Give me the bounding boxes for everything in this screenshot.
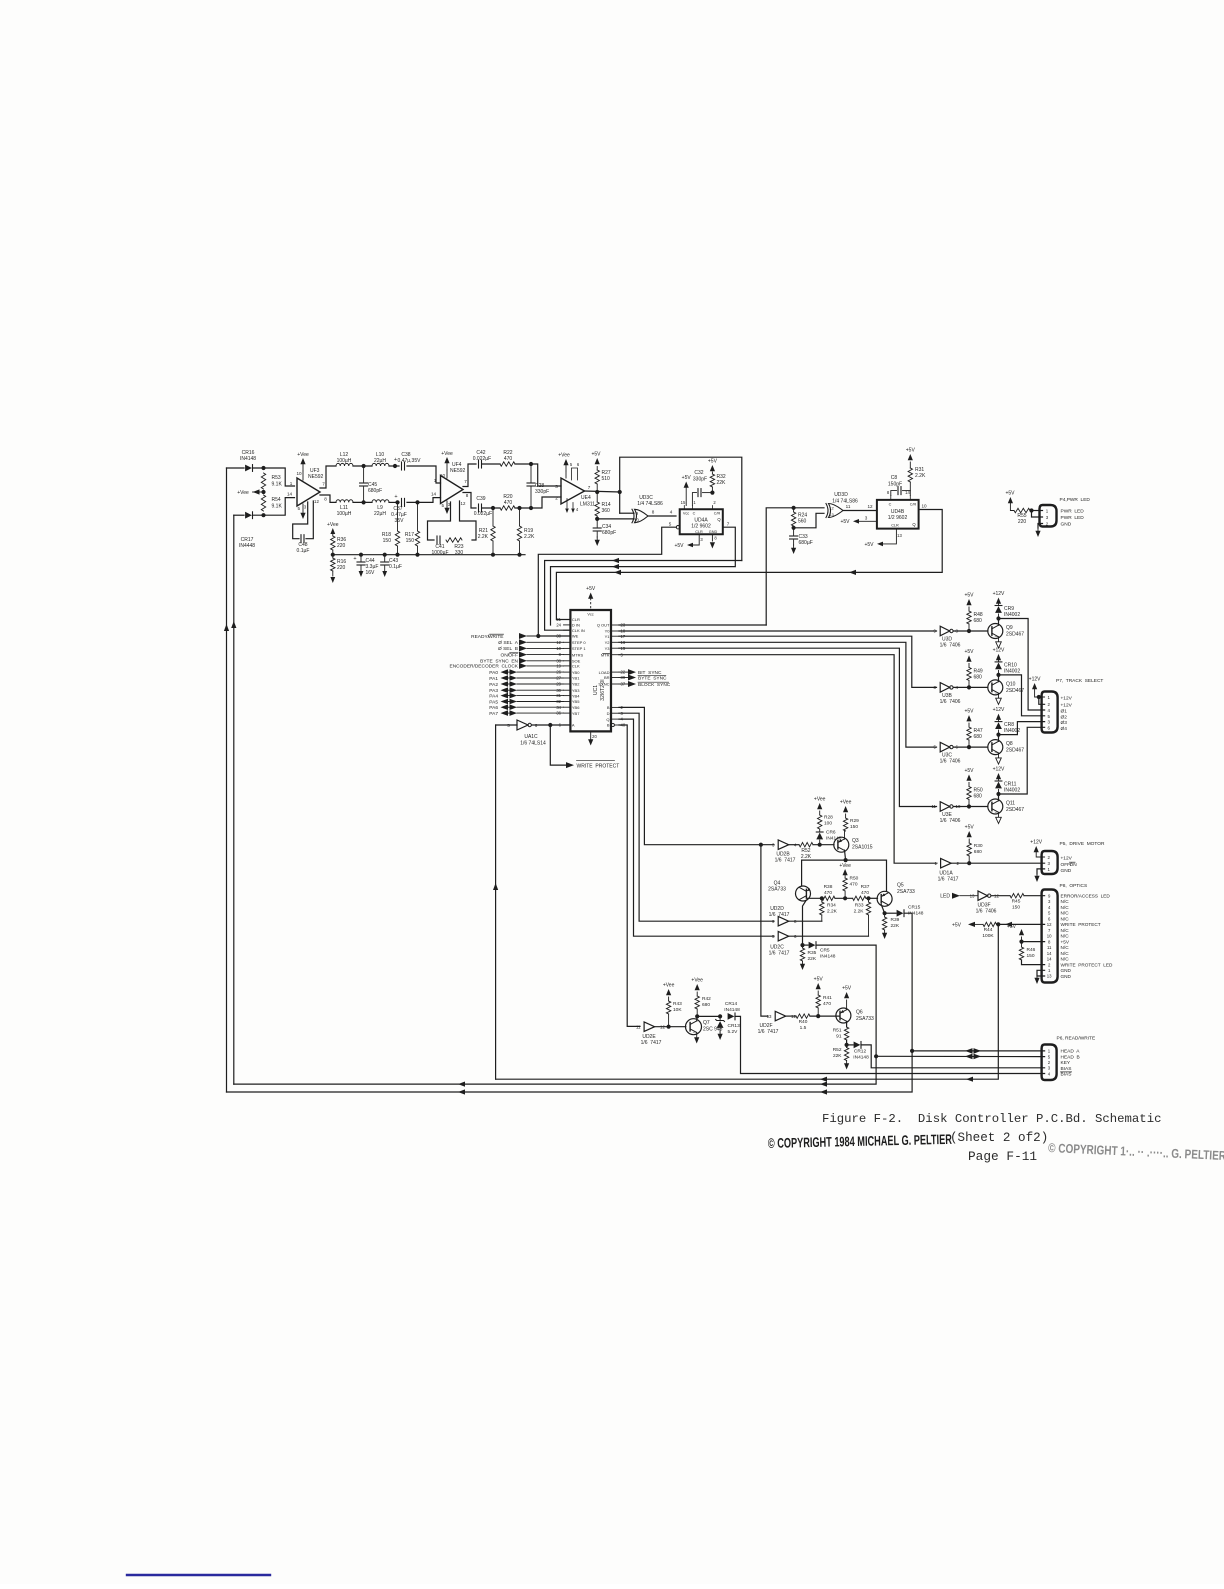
svg-text:100µH: 100µH bbox=[337, 458, 352, 464]
diode CR13 zener bbox=[716, 1016, 740, 1035]
svg-text:7: 7 bbox=[727, 522, 730, 527]
wire R45 to P8 pin9 bbox=[1024, 895, 1045, 897]
wire R20 to UE4 pin2 bbox=[515, 497, 561, 508]
svg-text:+Vee: +Vee bbox=[237, 490, 249, 496]
wire Y2 to U3C bbox=[619, 642, 937, 747]
wire Q7 collector up bbox=[696, 1016, 699, 1021]
resistor R16 bbox=[330, 555, 346, 583]
svg-text:C: C bbox=[889, 503, 892, 507]
svg-text:1: 1 bbox=[1048, 968, 1051, 973]
wire UD1A out to P5 bbox=[951, 862, 1045, 864]
arrow on bus C bbox=[612, 564, 619, 569]
svg-text:470: 470 bbox=[850, 882, 858, 888]
svg-text:P4,PWR LED: P4,PWR LED bbox=[1060, 497, 1091, 503]
svg-text:IN4148: IN4148 bbox=[853, 1055, 869, 1061]
connector P7 TRACK SELECT bbox=[1042, 692, 1058, 733]
svg-text:MTR: MTR bbox=[601, 652, 610, 657]
svg-text:1/6 74LS14: 1/6 74LS14 bbox=[520, 741, 546, 747]
svg-text:4: 4 bbox=[576, 507, 579, 512]
node R21 bottom junction bbox=[491, 553, 495, 557]
diode CR9 1N4002 bbox=[995, 604, 1020, 619]
wire U3B out to Q10 base bbox=[954, 686, 988, 688]
svg-text:N/C: N/C bbox=[1061, 905, 1070, 910]
resistor R48 680 bbox=[967, 607, 983, 631]
wire UD4A pin7 to bus C bbox=[551, 527, 736, 625]
inductor L12 bbox=[336, 452, 353, 466]
svg-text:470: 470 bbox=[824, 890, 832, 896]
svg-text:2.2K: 2.2K bbox=[801, 854, 812, 860]
node R50 bottom junction bbox=[843, 896, 847, 900]
node CR9 junction bbox=[996, 616, 1000, 620]
svg-text:GND: GND bbox=[1061, 522, 1072, 528]
svg-text:LED: LED bbox=[940, 894, 950, 900]
node R36/R16 junction bbox=[331, 553, 335, 557]
resistor R29 bbox=[843, 814, 859, 839]
wire Q4/Q5 top rail bbox=[802, 860, 887, 891]
connector P6 READ/WRITE bbox=[1042, 1045, 1057, 1081]
gate UD2E 7417 buffer bbox=[636, 1022, 666, 1046]
svg-text:© COPYRIGHT 1984 MICHAEL G. PE: © COPYRIGHT 1984 MICHAEL G. PELTIER bbox=[768, 1132, 952, 1151]
svg-text:YB6: YB6 bbox=[572, 705, 580, 710]
ground open arrow below Q10 bbox=[996, 693, 1002, 704]
svg-text:680pF: 680pF bbox=[368, 488, 382, 494]
wire L9 to C37 bbox=[389, 501, 399, 503]
wire UD3C out to UD4A pin4 bbox=[648, 515, 676, 517]
svg-text:N/C: N/C bbox=[1061, 928, 1070, 933]
power +5V above R51a bbox=[965, 825, 975, 838]
wire CR5 to HEADB vertical bbox=[234, 945, 876, 1084]
svg-text:4: 4 bbox=[1048, 1071, 1051, 1076]
power +Vee at UF4 pin10 bbox=[441, 451, 453, 478]
wire UD4A pin5 to bus A bbox=[538, 527, 676, 636]
transistor Q7 2SC945 bbox=[686, 1019, 723, 1035]
svg-text:R45: R45 bbox=[1012, 899, 1021, 905]
gate U3D 7406 inverter bbox=[934, 626, 961, 648]
svg-text:R35: R35 bbox=[808, 950, 817, 956]
wire UE4 loop to CLKIN bus B bbox=[545, 561, 742, 631]
ground below R35 bbox=[802, 961, 804, 964]
svg-text:R51: R51 bbox=[833, 1028, 842, 1034]
svg-text:R46: R46 bbox=[1027, 947, 1036, 953]
capacitor C45 bbox=[360, 466, 383, 502]
svg-text:12: 12 bbox=[461, 501, 466, 506]
svg-text:LOAD: LOAD bbox=[599, 670, 610, 675]
svg-text:+5V: +5V bbox=[840, 519, 850, 525]
wire L12 to L10 bbox=[353, 465, 372, 467]
resistor R52b 22K bbox=[833, 1045, 849, 1061]
arrow up on UA1C feedback bbox=[493, 883, 498, 890]
resistor R51a 680 bbox=[967, 839, 983, 863]
svg-text:Q: Q bbox=[606, 717, 609, 722]
svg-text:+5V: +5V bbox=[964, 649, 974, 655]
svg-text:2: 2 bbox=[713, 500, 716, 505]
svg-text:22K: 22K bbox=[808, 956, 817, 962]
labels P7 pins bbox=[1061, 696, 1073, 732]
connector P8 OPTICS bbox=[1042, 890, 1058, 983]
wire UD2E out to Q7 base bbox=[655, 1026, 686, 1028]
diode CR12 bbox=[853, 1042, 869, 1061]
svg-text:560: 560 bbox=[798, 519, 807, 525]
IC UC1 right pin stubs and names bbox=[597, 623, 626, 728]
diode CR17 bbox=[245, 512, 252, 519]
svg-text:3: 3 bbox=[700, 537, 703, 542]
svg-text:N/C: N/C bbox=[1061, 916, 1070, 921]
svg-text:CLR: CLR bbox=[891, 524, 899, 528]
svg-text:22K: 22K bbox=[833, 1053, 842, 1059]
gate UD1A 7417 buffer bbox=[934, 858, 959, 882]
wire P8 pin12 to R44 node bbox=[998, 923, 1044, 925]
wire bias rail bbox=[333, 554, 525, 556]
power +12V above CR10 bbox=[993, 647, 1005, 660]
node R34 top junction bbox=[820, 896, 824, 900]
svg-text:N/C: N/C bbox=[1061, 934, 1070, 939]
svg-text:+Vee: +Vee bbox=[839, 863, 851, 869]
resistor R24 bbox=[791, 508, 807, 528]
svg-text:BIAS: BIAS bbox=[1061, 1066, 1072, 1072]
svg-text:7: 7 bbox=[1048, 928, 1051, 933]
svg-text:5.2V: 5.2V bbox=[728, 1029, 739, 1035]
svg-text:12: 12 bbox=[867, 504, 873, 509]
svg-text:R38: R38 bbox=[824, 884, 833, 890]
svg-text:C39: C39 bbox=[476, 496, 485, 502]
svg-text:Figure F-2. Disk Controller P: Figure F-2. Disk Controller P.C.Bd. Sche… bbox=[822, 1112, 1161, 1126]
wire UD2B node to UD2F bbox=[761, 845, 768, 1016]
pin 13 CLR of UD4B bbox=[864, 529, 902, 548]
power +5V to UC1 Vcc bbox=[586, 586, 596, 610]
node R50 junction bbox=[967, 804, 971, 808]
svg-text:+5V: +5V bbox=[814, 977, 824, 983]
svg-text:0.1µF: 0.1µF bbox=[297, 548, 310, 554]
svg-text:150: 150 bbox=[850, 824, 858, 830]
wire into XOR UD3C pin9 bbox=[620, 512, 634, 514]
pin 5 of UD4A bbox=[669, 522, 680, 529]
svg-text:R42: R42 bbox=[702, 996, 711, 1002]
svg-text:+5V: +5V bbox=[952, 923, 962, 929]
arrows on HEAD B row bbox=[965, 1054, 981, 1060]
pin 3 CLR of UD4A bbox=[674, 534, 703, 549]
svg-text:7: 7 bbox=[322, 482, 325, 487]
svg-text:GND: GND bbox=[1061, 968, 1072, 973]
svg-text:1.5: 1.5 bbox=[800, 1025, 807, 1031]
ground at P5 pin1 bbox=[1036, 874, 1038, 876]
diode CR10 1N4002 bbox=[995, 660, 1020, 675]
wire UF3 pin8 to bottom rail bbox=[320, 495, 336, 502]
resistor R40 bbox=[796, 1014, 810, 1031]
transistor Q10 2SD467 bbox=[988, 680, 1024, 695]
resistor R14 bbox=[595, 492, 611, 519]
wire Q10 collector bbox=[998, 675, 1000, 682]
svg-text:STEP 0: STEP 0 bbox=[572, 640, 586, 645]
power +5V above R32 bbox=[708, 459, 718, 472]
transistor Q8 2SD467 bbox=[988, 740, 1024, 755]
arrow on bus D far bbox=[849, 570, 856, 575]
power +5V above R49 bbox=[964, 649, 974, 662]
svg-text:11: 11 bbox=[636, 1025, 641, 1030]
svg-text:+5V: +5V bbox=[965, 825, 975, 831]
svg-text:91: 91 bbox=[836, 1034, 842, 1040]
svg-text:+12V: +12V bbox=[1061, 856, 1073, 862]
svg-text:N/C: N/C bbox=[1061, 945, 1070, 950]
svg-text:+Vee: +Vee bbox=[814, 797, 826, 803]
node UE4 loop junction bbox=[618, 490, 622, 494]
svg-text:+5V: +5V bbox=[906, 448, 916, 454]
svg-text:11: 11 bbox=[846, 504, 851, 509]
power +5V above R48 bbox=[964, 593, 974, 606]
caption page bbox=[968, 1149, 1037, 1164]
power +5V above R27 bbox=[591, 452, 601, 465]
svg-text:CLK: CLK bbox=[572, 664, 580, 669]
svg-text:4: 4 bbox=[1047, 708, 1050, 713]
svg-text:Ø SEL A: Ø SEL A bbox=[498, 640, 519, 646]
wire UE4 loop riser bbox=[620, 457, 742, 560]
svg-text:3: 3 bbox=[1048, 1066, 1051, 1071]
wire loop to UF4 pin12 bbox=[460, 501, 477, 540]
svg-text:+5V: +5V bbox=[1007, 924, 1017, 930]
node divider mid junction bbox=[261, 490, 265, 494]
svg-text:1/6 7406: 1/6 7406 bbox=[940, 699, 961, 705]
svg-text:1: 1 bbox=[1047, 695, 1050, 700]
power +5V at UD4A Vcc bbox=[682, 475, 692, 506]
svg-text:+Vee: +Vee bbox=[297, 452, 309, 458]
resistor R36 with +Vee bbox=[327, 522, 346, 555]
svg-text:Q11: Q11 bbox=[1006, 801, 1015, 807]
svg-text:+12V: +12V bbox=[1030, 840, 1042, 846]
power +5V at Q6 emitter bbox=[842, 986, 852, 1010]
caption figure title bbox=[822, 1112, 1161, 1126]
svg-text:3: 3 bbox=[1047, 861, 1050, 866]
svg-text:680: 680 bbox=[974, 794, 983, 800]
svg-text:R54: R54 bbox=[272, 497, 281, 503]
svg-text:+12V: +12V bbox=[1061, 696, 1073, 702]
wire R24 node to XOR pin13 bbox=[794, 513, 824, 528]
wire R14 node to XOR pin10 bbox=[597, 518, 634, 520]
capacitor C42 bbox=[473, 450, 491, 468]
svg-text:9: 9 bbox=[1048, 893, 1051, 898]
svg-text:Q OUT: Q OUT bbox=[597, 623, 610, 628]
svg-text:2SD467: 2SD467 bbox=[1006, 632, 1024, 638]
svg-text:8: 8 bbox=[714, 536, 717, 541]
wire write protect drop bbox=[550, 725, 566, 765]
node R44 junction bbox=[996, 922, 1000, 926]
svg-text:PWR LED: PWR LED bbox=[1061, 515, 1085, 521]
svg-text:BYTE SYNC: BYTE SYNC bbox=[638, 675, 667, 681]
svg-text:100µH: 100µH bbox=[337, 511, 352, 517]
ground below C33 bbox=[793, 545, 795, 548]
svg-text:R40: R40 bbox=[799, 1019, 808, 1025]
wire Q3 collector to rail bbox=[845, 850, 846, 860]
power +5V at P8 pin8 bbox=[1007, 924, 1024, 942]
capacitor C28 bbox=[527, 464, 549, 508]
svg-text:C/R: C/R bbox=[714, 512, 721, 516]
svg-text:13: 13 bbox=[970, 894, 975, 899]
svg-text:N/C: N/C bbox=[1061, 951, 1070, 956]
svg-text:C32: C32 bbox=[694, 470, 703, 476]
svg-text:R43: R43 bbox=[673, 1001, 682, 1007]
wire R46 to P8 pin2 bbox=[1022, 960, 1045, 965]
svg-text:+5V: +5V bbox=[1061, 939, 1070, 944]
wire P8 pin8 to +5V node bbox=[1022, 941, 1045, 943]
svg-text:2SA733: 2SA733 bbox=[897, 889, 915, 895]
svg-text:2: 2 bbox=[1048, 962, 1051, 967]
svg-text:UD3D: UD3D bbox=[834, 492, 848, 498]
svg-text:CR13: CR13 bbox=[728, 1023, 741, 1029]
labels UD3D out bbox=[846, 504, 873, 509]
svg-text:+Vee: +Vee bbox=[663, 983, 675, 989]
svg-text:GND: GND bbox=[709, 530, 718, 534]
svg-text:9.1K: 9.1K bbox=[272, 504, 283, 510]
wire L11 to L9 bbox=[353, 501, 372, 503]
power +Vee above R50 bbox=[839, 863, 851, 875]
node CR6 junction bbox=[818, 843, 822, 847]
arrow on bus b right bbox=[966, 1077, 973, 1082]
svg-text:GND: GND bbox=[1061, 868, 1072, 874]
node R19 top bbox=[517, 506, 521, 510]
svg-text:2: 2 bbox=[1047, 702, 1050, 707]
wire B40 to UD2E bbox=[619, 725, 640, 1026]
node R24 bottom junction bbox=[792, 526, 796, 530]
svg-text:14: 14 bbox=[431, 491, 437, 496]
svg-text:Q9: Q9 bbox=[1006, 625, 1013, 631]
resistor R38 bbox=[822, 884, 835, 901]
svg-text:ON: ON bbox=[1070, 862, 1078, 868]
svg-text:470: 470 bbox=[823, 1001, 831, 1007]
capacitor C8 bbox=[888, 475, 910, 496]
svg-text:PA4: PA4 bbox=[489, 693, 498, 699]
power +5V for P4 bbox=[1005, 491, 1015, 511]
svg-text:1: 1 bbox=[1046, 509, 1049, 514]
svg-text:BIT SYNC: BIT SYNC bbox=[638, 670, 662, 676]
svg-text:+: + bbox=[394, 494, 397, 500]
wire UD2B out to R52 bbox=[789, 844, 799, 846]
gate UD2F 7417 buffer bbox=[758, 1011, 797, 1035]
resistor R47 680 bbox=[967, 723, 983, 747]
svg-text:2.2K: 2.2K bbox=[478, 534, 489, 540]
svg-text:470: 470 bbox=[504, 456, 513, 462]
power +12V above CR8 bbox=[993, 707, 1005, 720]
svg-text:22µH: 22µH bbox=[374, 511, 386, 517]
wire UF3 pin7 to top rail bbox=[320, 466, 336, 488]
wire CR8 node to P7 bbox=[999, 722, 1045, 735]
svg-text:+12V: +12V bbox=[993, 591, 1005, 597]
svg-text:+Vee: +Vee bbox=[840, 800, 852, 806]
wire Q4 collector down bbox=[803, 900, 807, 945]
labels UD3C out pins bbox=[652, 510, 673, 515]
svg-text:2SA1015: 2SA1015 bbox=[852, 845, 873, 851]
svg-text:22µH: 22µH bbox=[374, 458, 386, 464]
svg-text:N/C: N/C bbox=[1061, 899, 1070, 904]
labels P8 pins bbox=[1061, 894, 1113, 979]
wire UD4B out to bus D bbox=[556, 510, 942, 620]
label pin7 UF4 bbox=[464, 479, 467, 484]
svg-text:C8: C8 bbox=[891, 475, 898, 481]
label P7 title bbox=[1056, 678, 1103, 684]
connector P4 PWR LED bbox=[1040, 505, 1057, 527]
svg-text:22K: 22K bbox=[717, 480, 727, 486]
svg-text:330pF: 330pF bbox=[535, 489, 549, 495]
wire R55 to P4 pin1 bbox=[1030, 510, 1043, 512]
wire R37 to Q5 base bbox=[866, 897, 878, 899]
label pin8 UF4 bbox=[466, 493, 469, 498]
resistor R55 bbox=[1014, 508, 1030, 525]
svg-text:+12V: +12V bbox=[1061, 703, 1073, 709]
blue mark bottom left bbox=[127, 1574, 270, 1576]
wire UF4 pin7 to C42 bbox=[463, 464, 476, 487]
wire HEAD B vertical return bbox=[233, 515, 235, 1084]
node Q5 collector junction bbox=[883, 911, 887, 915]
IC UD4A 1/2 9602 bbox=[680, 509, 723, 534]
label CR16 1N4148 bbox=[240, 450, 256, 462]
gate UD3D 74LS86 xor bbox=[826, 492, 858, 518]
svg-text:P7, TRACK SELECT: P7, TRACK SELECT bbox=[1056, 678, 1103, 684]
svg-text:YB3: YB3 bbox=[572, 688, 580, 693]
svg-text:IN4148: IN4148 bbox=[240, 456, 256, 462]
transistor Q5 2SA733 bbox=[877, 883, 915, 907]
svg-text:11: 11 bbox=[931, 804, 936, 809]
node R17 drop junction bbox=[415, 500, 419, 504]
svg-text:220: 220 bbox=[1018, 519, 1027, 525]
svg-text:6: 6 bbox=[577, 462, 580, 467]
svg-text:YB1: YB1 bbox=[572, 676, 580, 681]
svg-text:+5V: +5V bbox=[964, 709, 974, 715]
node CR11 junction bbox=[996, 792, 1000, 796]
wire node to CR12 bbox=[847, 1044, 853, 1046]
svg-text:6: 6 bbox=[1048, 916, 1051, 921]
ground at UC1 pin20 bbox=[588, 731, 597, 745]
svg-text:1/6 7406: 1/6 7406 bbox=[976, 909, 997, 915]
svg-text:9: 9 bbox=[636, 511, 639, 516]
resistor R46 bbox=[1019, 942, 1035, 960]
wire to CR17 bbox=[234, 514, 244, 516]
svg-text:150: 150 bbox=[406, 538, 415, 544]
svg-text:HEAD B: HEAD B bbox=[1061, 1054, 1080, 1060]
svg-text:1: 1 bbox=[434, 478, 437, 483]
svg-text:CLR: CLR bbox=[695, 530, 703, 534]
svg-text:10: 10 bbox=[296, 471, 302, 476]
wire C48 loop to UF3 pin12 bbox=[306, 501, 313, 539]
svg-text:ENCODER/DECODER CLOCK: ENCODER/DECODER CLOCK bbox=[450, 664, 519, 670]
svg-text:PA3: PA3 bbox=[489, 688, 498, 694]
pin 10 out of UD4B bbox=[921, 504, 927, 509]
svg-text:1/6 7417: 1/6 7417 bbox=[769, 912, 790, 918]
wire U3E out to Q11 base bbox=[954, 806, 988, 808]
svg-text:13: 13 bbox=[897, 533, 902, 538]
svg-text:Q10: Q10 bbox=[1006, 681, 1016, 687]
diode CR5 bbox=[809, 942, 836, 960]
svg-text:ERROR/ACCESS LED: ERROR/ACCESS LED bbox=[1061, 894, 1111, 899]
svg-text:+5V: +5V bbox=[708, 459, 718, 465]
node Q7 collector junction bbox=[695, 1014, 699, 1018]
svg-text:5: 5 bbox=[1048, 911, 1051, 916]
svg-text:D: D bbox=[607, 711, 610, 716]
resistor R37 bbox=[853, 884, 870, 901]
wire Y3 to U3E bbox=[619, 648, 937, 806]
svg-text:+Vee: +Vee bbox=[441, 451, 453, 457]
wire arrow up on HEAD A line bbox=[224, 624, 229, 631]
svg-text:WRITE PROTECT: WRITE PROTECT bbox=[577, 763, 620, 769]
svg-text:14: 14 bbox=[1047, 951, 1052, 956]
svg-text:10: 10 bbox=[1047, 934, 1052, 939]
node C43 junction bbox=[383, 553, 387, 557]
capacitor C32 bbox=[692, 470, 712, 506]
svg-text:220: 220 bbox=[337, 543, 346, 549]
svg-text:B: B bbox=[607, 705, 610, 710]
gate UD3F 7406 inverter bbox=[970, 891, 1000, 915]
node R18 bottom junction bbox=[395, 553, 399, 557]
svg-text:IN4148: IN4148 bbox=[724, 1007, 740, 1013]
resistor R34 bbox=[820, 898, 838, 921]
node R18 drop junction bbox=[395, 500, 399, 504]
transistor Q4 2SA733 bbox=[768, 881, 810, 902]
